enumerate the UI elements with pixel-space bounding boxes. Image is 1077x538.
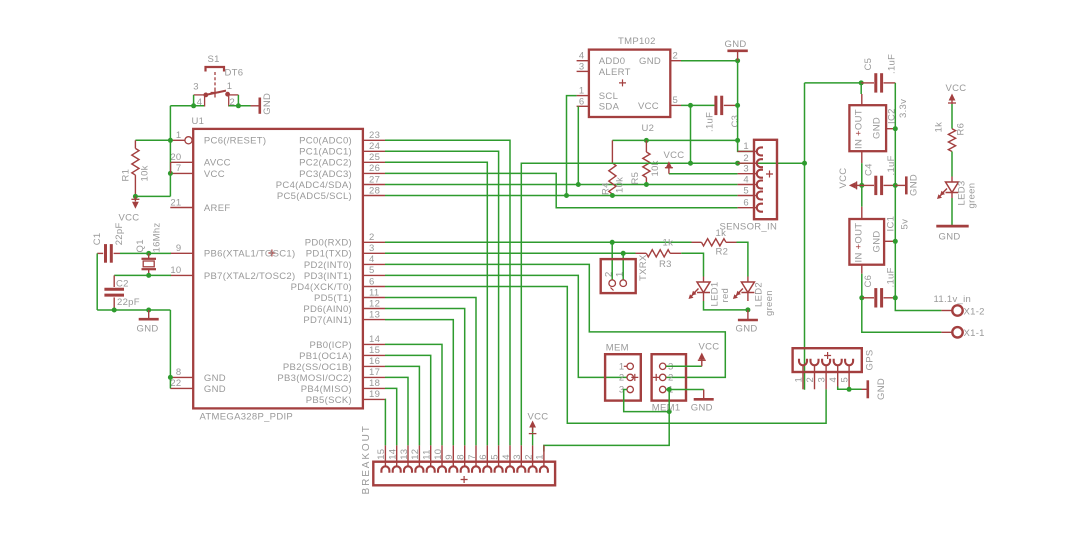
wire VCC horizontal to R1 [135, 195, 170, 197]
svg-text:2: 2 [805, 377, 816, 383]
svg-text:Q1: Q1 [135, 239, 146, 252]
svg-text:MEM: MEM [606, 343, 629, 354]
capacitor C4 .1uF [862, 184, 874, 186]
S1 pin 3 lead [194, 94, 206, 96]
junction SDA [576, 182, 581, 187]
svg-text:IN +OUT: IN +OUT [854, 109, 865, 149]
svg-text:5: 5 [489, 454, 500, 460]
origin cross GPS [824, 352, 831, 359]
svg-text:ADD0: ADD0 [599, 56, 626, 67]
svg-text:PD1(TXD): PD1(TXD) [306, 249, 352, 260]
svg-text:2: 2 [668, 372, 674, 383]
svg-text:22: 22 [170, 378, 181, 389]
svg-text:14: 14 [369, 334, 380, 345]
svg-text:GND: GND [909, 174, 920, 196]
svg-text:28: 28 [369, 185, 380, 196]
svg-text:U2: U2 [642, 123, 655, 134]
MEM pin 1 pad [627, 363, 633, 369]
BREAKOUT pin 7 [475, 445, 477, 461]
wire PD5 to breakout 7 [385, 298, 476, 446]
supply VCC arrow at sensor [668, 165, 670, 174]
ground symbol at S1 (rotated) [251, 105, 259, 107]
junction R1 bottom [133, 194, 138, 199]
resistor R5 10k [645, 140, 647, 152]
U1 pin 11 PD5(T1) [363, 297, 385, 299]
junction GPS pin5 gnd [847, 387, 852, 392]
U1 pin1 inversion bubble [185, 137, 192, 144]
svg-text:PB0(ICP): PB0(ICP) [309, 340, 352, 351]
ground symbol right of C4 (rotated) [895, 184, 905, 186]
wire GND net left [97, 309, 170, 311]
svg-text:SENSOR_IN: SENSOR_IN [720, 222, 778, 233]
svg-text:GND: GND [871, 230, 882, 252]
wire PD3 to MEM pin2 [385, 275, 627, 377]
wire PD7 to breakout 9 [385, 320, 453, 446]
U1 pin 26 PC3(ADC3) [363, 172, 385, 174]
svg-text:1k: 1k [934, 122, 945, 133]
U1 pin 2 PD0(RXD) [363, 241, 385, 243]
junction TMP vcc [688, 103, 693, 108]
wire PC1 to breakout 5 [385, 151, 499, 445]
svg-text:25: 25 [369, 152, 380, 163]
TXRX pin 1 pad [620, 280, 627, 287]
svg-text:11.1v_in: 11.1v_in [934, 294, 972, 305]
junction 3.3v TMP vcc branch [688, 161, 693, 166]
resistor R6 1k [948, 129, 955, 152]
MEM1 pin 1 pad [660, 386, 666, 392]
svg-text:5: 5 [840, 377, 851, 383]
junction RXD TXRX [610, 240, 615, 245]
svg-text:4: 4 [501, 454, 512, 460]
wire GPS pin4 to gnd [838, 387, 862, 390]
BREAKOUT pin 1 [543, 445, 545, 461]
svg-text:3: 3 [193, 82, 199, 93]
svg-text:5: 5 [369, 265, 375, 276]
connector SENSOR_IN body [754, 140, 777, 219]
wire VCC to R6 [951, 104, 953, 129]
svg-text:PD2(INT0): PD2(INT0) [304, 260, 352, 271]
svg-text:3: 3 [512, 454, 523, 460]
svg-text:3.3v: 3.3v [898, 99, 909, 118]
capacitor C1 22pF [104, 244, 107, 263]
junction C6 right [893, 295, 898, 300]
svg-text:R5: R5 [630, 172, 641, 185]
svg-text:1: 1 [535, 454, 546, 460]
svg-text:GND: GND [691, 402, 713, 413]
IC2 GND pin stub [886, 128, 895, 130]
junction R4 bottom SCL [610, 193, 615, 198]
supply VCC arrow at breakout pin2 [532, 427, 534, 445]
origin cross MEM1 [653, 374, 660, 381]
U1 pin 18 PB4(MISO) [363, 387, 385, 389]
svg-text:4: 4 [369, 254, 375, 265]
junction C6 left [859, 295, 864, 300]
svg-text:GND: GND [871, 117, 882, 139]
wire VCC to SENSOR_IN 3 [669, 173, 738, 175]
connector GPS body [793, 348, 862, 372]
wire to SENSOR_IN pin1 [738, 140, 754, 151]
BREAKOUT pin 5 [498, 445, 500, 461]
U1 pin 13 PD7(AIN1) [363, 319, 385, 321]
connector TXRX body [601, 259, 636, 293]
svg-text:1k: 1k [663, 237, 674, 248]
svg-text:27: 27 [369, 174, 380, 185]
svg-text:6: 6 [743, 198, 749, 209]
U1 pin 27 PC4(ADC4/SDA) [363, 184, 385, 186]
svg-text:LED1: LED1 [710, 282, 721, 307]
svg-text:4: 4 [828, 377, 839, 383]
svg-text:9: 9 [176, 243, 182, 254]
BREAKOUT pin 9 [452, 445, 454, 461]
svg-text:13: 13 [399, 449, 410, 460]
wire PD1 TXD row [385, 252, 636, 254]
BREAKOUT pin 14 [396, 445, 398, 461]
U1 pin 24 PC1(ADC1) [363, 150, 385, 152]
svg-text:PD5(T1): PD5(T1) [314, 293, 352, 304]
svg-text:PC2(ADC2): PC2(ADC2) [299, 158, 352, 169]
LED2 green [747, 277, 749, 283]
BREAKOUT pin 8 [464, 445, 466, 461]
svg-text:R1: R1 [121, 169, 132, 182]
svg-text:VCC: VCC [638, 101, 659, 112]
resistor R4 10k [611, 140, 613, 163]
svg-text:PB5(SCK): PB5(SCK) [306, 395, 352, 406]
svg-text:SDA: SDA [599, 102, 620, 113]
ground symbol above C3 [737, 52, 739, 61]
resistor R1 10k [134, 140, 136, 148]
terminal X1-1 [941, 331, 951, 333]
svg-text:PC0(ADC0): PC0(ADC0) [299, 136, 352, 147]
svg-text:8: 8 [456, 454, 467, 460]
wire LED1 to LED2 gnd [704, 301, 748, 310]
origin cross BREAKOUT [461, 476, 468, 483]
wire IC2 out up [860, 83, 862, 94]
junction C2 gnd [112, 308, 117, 313]
svg-text:PC5(ADC5/SCL): PC5(ADC5/SCL) [277, 191, 352, 202]
svg-text:R2: R2 [716, 246, 729, 257]
svg-text:12: 12 [410, 449, 421, 460]
wire 3.3v column IC2 to GPS1 [804, 83, 806, 390]
capacitor C2 22pF [104, 288, 124, 291]
IC2 OUT pin stub [861, 94, 863, 105]
svg-text:TMP102: TMP102 [618, 36, 656, 47]
svg-text:9: 9 [444, 454, 455, 460]
svg-text:VCC: VCC [838, 168, 849, 189]
junction gnd symbol [146, 308, 151, 313]
wire S1 right contact down [237, 95, 239, 106]
svg-text:C6: C6 [863, 275, 874, 288]
svg-text:22pF: 22pF [117, 297, 140, 308]
IC U2 TMP102 body [589, 50, 670, 117]
U1 pin 16 PB2(SS/OC1B) [363, 365, 385, 367]
svg-text:4: 4 [579, 51, 585, 62]
SENSOR_IN pin 3 [738, 173, 754, 175]
TMP102 pin 2 GND [670, 60, 681, 62]
ground symbol below LEDs [747, 310, 749, 319]
svg-text:AVCC: AVCC [204, 158, 231, 169]
svg-text:.1uF: .1uF [705, 112, 716, 132]
wire GND column right [895, 83, 941, 311]
BREAKOUT pin 4 [509, 445, 511, 461]
svg-text:PB1(OC1A): PB1(OC1A) [299, 351, 352, 362]
svg-text:AREF: AREF [204, 203, 231, 214]
svg-text:10k: 10k [140, 165, 151, 181]
wire PB4 to breakout 14 [385, 388, 397, 445]
junction A vertical [735, 138, 740, 143]
svg-text:C4: C4 [863, 163, 874, 176]
svg-text:1: 1 [227, 81, 233, 92]
U1 pin 23 PC0(ADC0) [363, 139, 385, 141]
svg-text:IC1: IC1 [885, 216, 896, 232]
wire XTAL2 row [114, 274, 171, 276]
svg-text:19: 19 [369, 389, 380, 400]
MEM1 pin 2 pad [660, 374, 666, 380]
wire R6 to LED3 [951, 152, 953, 177]
wire XTAL1 row [120, 252, 171, 254]
U1 pin 25 PC2(ADC2) [363, 161, 385, 163]
svg-text:PC1(ADC1): PC1(ADC1) [299, 147, 352, 158]
capacitor C5 .1uF [861, 82, 874, 84]
svg-text:C1: C1 [92, 233, 103, 246]
junction LED gnd [745, 307, 750, 312]
supply VCC (down arrow) at R1 [134, 196, 136, 201]
SENSOR_IN pin 1 [738, 150, 754, 152]
wire MEM1 gnd symbol lead [669, 389, 704, 391]
wire LED3 to gnd [951, 198, 953, 225]
svg-text:1: 1 [794, 377, 805, 383]
U1 pin 10 PB7(XTAL2/TOSC2) [170, 274, 193, 276]
junction A-R5 [644, 138, 649, 143]
BREAKOUT pin 3 [520, 445, 522, 461]
svg-text:X1-1: X1-1 [964, 328, 985, 339]
wire PC2 to breakout 6 [385, 162, 487, 445]
terminal X1-2 [941, 310, 951, 312]
svg-text:VCC: VCC [204, 169, 225, 180]
svg-text:1: 1 [579, 86, 585, 97]
svg-text:3: 3 [743, 164, 749, 175]
wire TXRX pin1 drop [622, 253, 624, 280]
wire SDA from TMP pin6 [577, 106, 579, 184]
svg-text:GND: GND [939, 232, 961, 243]
IC U1 ATMEGA328P_PDIP body [193, 129, 363, 409]
svg-text:VCC: VCC [946, 83, 967, 94]
supply VCC arrow (left) at C4 [855, 184, 861, 186]
svg-text:VCC: VCC [528, 411, 549, 422]
svg-text:5v: 5v [900, 219, 911, 230]
junction SCL [564, 193, 569, 198]
svg-text:11: 11 [369, 287, 379, 298]
U1 pin 12 PD6(AIN0) [363, 308, 385, 310]
supply VCC arrow at MEM1 [701, 357, 703, 367]
SENSOR_IN pin 6 [738, 207, 754, 209]
GPS pin 5 [845, 359, 853, 366]
SENSOR_IN pin 4 [738, 184, 754, 186]
wire PD0 RXD row [385, 241, 692, 243]
wire SCL row PC5 [385, 195, 738, 197]
svg-text:ATMEGA328P_PDIP: ATMEGA328P_PDIP [200, 412, 294, 423]
svg-text:23: 23 [369, 130, 380, 141]
U1 pin 9 PB6(XTAL1/TOSC1) [170, 252, 193, 254]
svg-text:5: 5 [743, 185, 749, 196]
junction C3 right [735, 103, 740, 108]
U1 pin 28 PC5(ADC5/SCL) [363, 195, 385, 197]
voltage regulator IC1 5v body [849, 219, 884, 265]
IC1 OUT pin stub [861, 207, 863, 219]
wire MEM1 pin3 to VCC [666, 365, 702, 367]
junction 3.3v sensor pin2 [735, 161, 740, 166]
connector MEM body [605, 354, 641, 400]
svg-text:PB6(XTAL1/TOSC1): PB6(XTAL1/TOSC1) [204, 249, 296, 260]
wire TMP vcc down to 3.3v net [690, 105, 692, 163]
svg-text:20: 20 [170, 152, 181, 163]
svg-text:11: 11 [422, 449, 433, 459]
svg-text:TXRX: TXRX [638, 254, 649, 281]
svg-text:PB3(MOSI/OC2): PB3(MOSI/OC2) [277, 373, 352, 384]
svg-text:2: 2 [369, 232, 375, 243]
svg-text:GND: GND [137, 323, 159, 334]
LED1 red [703, 277, 705, 283]
svg-text:green: green [764, 290, 775, 316]
junction TXD TXRX [621, 251, 626, 256]
U1 pin 22 GND [170, 387, 193, 389]
svg-text:IN +OUT: IN +OUT [854, 223, 865, 263]
junction pins 20-7 [168, 171, 173, 176]
svg-text:U1: U1 [192, 116, 205, 127]
junction XTAL2 [146, 273, 151, 278]
svg-text:S1: S1 [208, 54, 220, 65]
svg-text:22pF: 22pF [114, 222, 125, 245]
svg-text:26: 26 [369, 163, 380, 174]
svg-text:C5: C5 [863, 58, 874, 71]
svg-text:4: 4 [743, 174, 749, 185]
svg-text:SCL: SCL [599, 91, 618, 102]
U1 pin 1 PC6(/RESET) [170, 139, 185, 141]
BREAKOUT pin 11 [430, 445, 432, 461]
U1 pin 7 VCC [170, 172, 193, 174]
ground symbol below C2 [148, 310, 150, 318]
BREAKOUT pin 2 [532, 445, 534, 461]
svg-text:GND: GND [736, 324, 758, 335]
svg-text:2: 2 [743, 153, 749, 164]
svg-text:10k: 10k [615, 177, 626, 193]
TXRX pin 2 pad [609, 280, 616, 287]
wire 3.3v net to breakout 3 [521, 163, 804, 445]
svg-text:3: 3 [579, 61, 585, 72]
TMP102 pin 5 VCC [670, 104, 681, 106]
MEM pin 2 pad [627, 374, 633, 380]
svg-text:15: 15 [376, 449, 387, 460]
IC2 IN pin stub [861, 151, 863, 163]
wire reset net from switch [170, 105, 204, 107]
origin cross SENSOR_IN [766, 171, 773, 178]
svg-text:GND: GND [876, 378, 887, 400]
GPS pin 3 [822, 359, 830, 366]
wire PB5 to breakout 15 [384, 399, 386, 445]
junction XTAL1 [146, 251, 151, 256]
wire VCC column [861, 163, 863, 207]
svg-text:6: 6 [579, 96, 585, 107]
BREAKOUT pin 15 [384, 445, 386, 461]
U1 pin 8 GND [170, 376, 193, 378]
svg-text:DT6: DT6 [225, 68, 244, 79]
wire TMP VCC row [681, 104, 715, 106]
wire reset vertical to pin1 [169, 106, 171, 141]
U1 pin 14 PB0(ICP) [363, 343, 385, 345]
svg-text:PD0(RXD): PD0(RXD) [305, 238, 352, 249]
svg-text:.1uF: .1uF [887, 54, 898, 74]
wire R3 to LED1 [681, 253, 703, 276]
MEM pin1 tick [624, 365, 627, 367]
TMP102 pin 4 ADD0 [577, 60, 589, 62]
wire TXRX pin2 drop [611, 242, 613, 280]
svg-text:PB4(MISO): PB4(MISO) [301, 384, 352, 395]
U1 pin 6 PD4(XCK/T0) [363, 286, 385, 288]
LED3 green [951, 177, 953, 183]
svg-text:VCC: VCC [119, 212, 140, 223]
TMP102 pin 6 SDA [577, 105, 589, 107]
ground symbol at MEM1 [703, 390, 705, 399]
junction VCC C4 [859, 183, 864, 188]
wire S1 to GND [229, 105, 251, 107]
origin cross U1 [268, 250, 275, 257]
svg-text:7: 7 [467, 454, 478, 460]
svg-text:10: 10 [170, 265, 181, 276]
svg-text:VCC: VCC [699, 341, 720, 352]
wire S1 left contact down [193, 95, 195, 106]
ground symbol below LED3 [936, 225, 968, 228]
svg-text:PD7(AIN1): PD7(AIN1) [303, 315, 352, 326]
voltage regulator IC2 3.3v body [849, 105, 886, 151]
svg-text:GND: GND [725, 39, 747, 50]
junction R5 bottom SDA [644, 182, 649, 187]
wire MEM pin3 to gnd net [624, 390, 670, 412]
svg-text:X1-2: X1-2 [964, 306, 985, 317]
svg-text:16: 16 [369, 356, 380, 367]
wire gnd-A vertical [737, 61, 739, 141]
svg-text:PC6(/RESET): PC6(/RESET) [204, 136, 266, 147]
svg-text:PB7(XTAL2/TOSC2): PB7(XTAL2/TOSC2) [204, 271, 296, 282]
capacitor C3 .1uF [714, 96, 717, 115]
svg-text:8: 8 [176, 367, 182, 378]
svg-text:PC3(ADC3): PC3(ADC3) [299, 169, 352, 180]
junction IC2 gnd [893, 126, 898, 131]
wire PB0 to breakout 10 [385, 344, 442, 445]
svg-text:15: 15 [369, 345, 380, 356]
IC1 IN pin stub [861, 265, 863, 274]
svg-text:1: 1 [619, 361, 625, 372]
U1 pin 3 PD1(TXD) [363, 252, 385, 254]
SENSOR_IN pin 2 [738, 162, 754, 164]
svg-text:5: 5 [673, 95, 679, 106]
U1 pin 5 PD3(INT1) [363, 274, 385, 276]
svg-text:21: 21 [170, 197, 181, 208]
wire PD2 to MEM1 pin2 [385, 264, 725, 377]
junction IC1 gnd [893, 239, 898, 244]
svg-text:.1uF: .1uF [886, 155, 897, 175]
wire PB3 to breakout 13 [385, 377, 408, 445]
wire R2 to LED2 [737, 242, 748, 276]
svg-text:BREAKOUT: BREAKOUT [361, 424, 372, 494]
svg-text:GND: GND [262, 93, 273, 115]
svg-text:6: 6 [478, 454, 489, 460]
junction C4 gnd [893, 183, 898, 188]
junction S1-4 [191, 103, 196, 108]
svg-text:GND: GND [639, 56, 661, 67]
TMP102 pin 3 ALERT [577, 70, 589, 72]
junction IC2 out [859, 80, 864, 85]
U1 pin 20 AVCC [170, 161, 193, 163]
resistor R3 1k [636, 252, 647, 254]
